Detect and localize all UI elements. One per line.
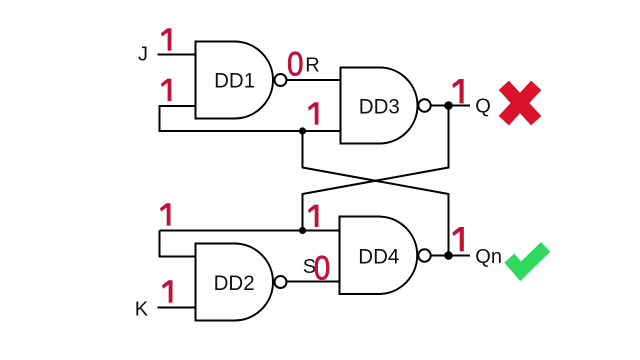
wire Qn cross-coupling: Qn up through crossing to DD3 lower input junction: [303, 131, 449, 256]
NAND gate DD4 body: [340, 217, 418, 295]
success check mark at Qn: [509, 247, 545, 271]
svg-text:DD1: DD1: [214, 68, 255, 92]
svg-text:Q: Q: [475, 96, 491, 118]
logic value 1 on K input: [162, 280, 173, 302]
error cross mark at Q: [499, 81, 542, 126]
wire S: DD2 output to DD4 lower input: [287, 281, 340, 283]
junction node: DD3 lower input / Qn feedback: [299, 127, 306, 134]
wire R: DD1 output to DD3 upper input: [287, 79, 341, 81]
wire K input: [158, 307, 196, 309]
svg-text:0: 0: [314, 250, 331, 288]
logic value 1 on DD4 upper input: [308, 205, 319, 227]
svg-text:J: J: [138, 44, 148, 66]
logic value 1 on DD3 lower input: [308, 102, 319, 124]
svg-text:0: 0: [287, 45, 304, 83]
svg-text:DD4: DD4: [358, 244, 399, 268]
NAND gate DD2 body: [196, 244, 274, 321]
DD4 output bubble: [418, 249, 430, 261]
DD2 output bubble: [275, 276, 287, 288]
wire DD3 output Q: [431, 105, 471, 107]
DD1 output bubble: [275, 74, 287, 86]
wire DD4 upper input run: [160, 230, 340, 232]
junction node: Qn output: [444, 251, 453, 260]
wire J input: [158, 54, 196, 56]
svg-text:DD3: DD3: [359, 94, 400, 118]
wire DD2 upper input from Q feedback: [160, 231, 196, 257]
logic value 1 on DD1 lower input: [161, 79, 172, 101]
logic value 1 on Qn output: [452, 227, 463, 251]
wire DD1 lower input / Qn feedback run to DD3 lower input: [160, 106, 341, 131]
logic value 1 on Q output: [452, 79, 463, 103]
DD3 output bubble: [418, 99, 430, 111]
NAND gate DD3 body: [341, 68, 418, 144]
NAND gate DD1 body: [196, 42, 274, 119]
wire DD4 output Qn: [431, 255, 471, 257]
svg-text:DD2: DD2: [214, 271, 255, 295]
svg-text:K: K: [135, 299, 149, 321]
junction node: DD4 upper input / Q feedback: [299, 227, 306, 234]
junction node: Q output: [444, 101, 453, 110]
logic value 1 on J input: [161, 28, 172, 50]
logic value 1 on DD2 upper input: [160, 203, 171, 225]
svg-text:R: R: [305, 54, 319, 76]
wire Q cross-coupling: Q down through crossing to DD4 upper input junction: [303, 106, 449, 231]
svg-text:Qn: Qn: [475, 246, 502, 268]
